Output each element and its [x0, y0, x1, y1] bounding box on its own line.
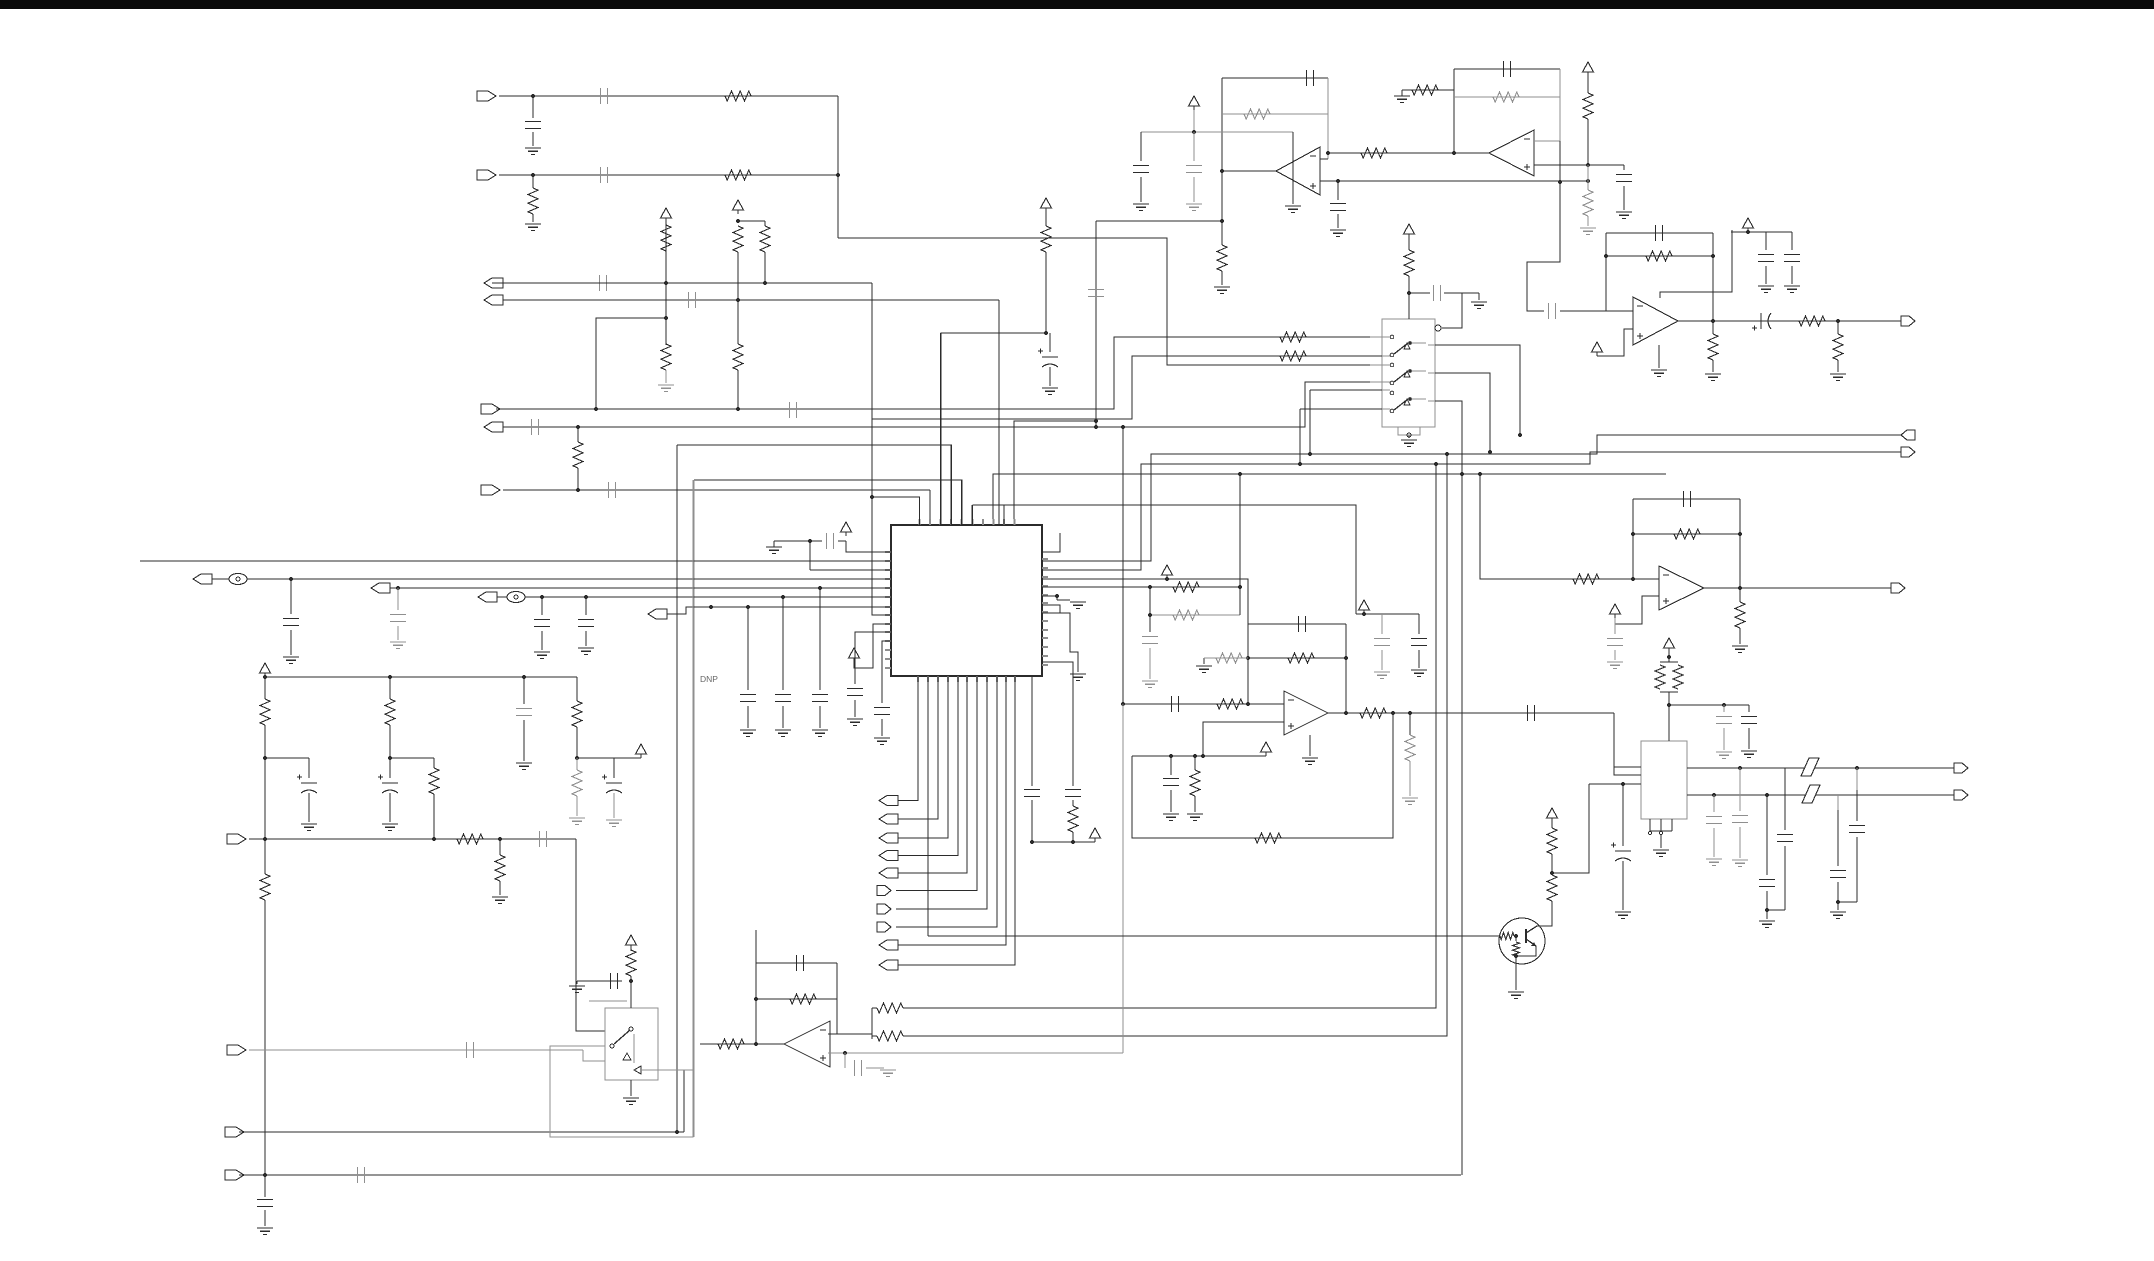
svg-text:DNP: DNP — [700, 674, 718, 684]
